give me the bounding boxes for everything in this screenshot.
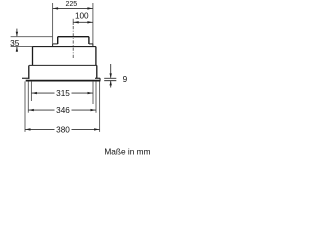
dim 315: right arrowhead	[88, 92, 93, 94]
body top line	[33, 46, 96, 48]
dim 346: left extension	[27, 81, 29, 112]
dim 380: dimension line left part	[25, 128, 55, 130]
dim 346: dimension line right part	[72, 109, 97, 111]
dim 35: upper arrow line	[16, 29, 18, 37]
dim 315: right extension	[92, 82, 94, 104]
hood duct hat: left edge	[57, 37, 59, 44]
dim 380: dimension line right part	[72, 128, 100, 130]
dim 225: extension line right (shared with dim 100)	[92, 3, 94, 44]
dim 315: dimension line right part	[72, 92, 94, 94]
dim 225: left arrowhead	[53, 7, 58, 9]
dim 9: upper arrowhead (down)	[110, 73, 112, 78]
dim 100: right arrowhead	[87, 21, 92, 23]
dim 346: dimension line left part	[28, 109, 54, 111]
dim 380: right extension	[99, 81, 101, 131]
dim 315: left arrowhead	[32, 92, 37, 94]
dim 315: left extension	[30, 82, 32, 101]
flange bottom line: right segment	[95, 77, 100, 79]
flange bottom line: left segment	[22, 77, 30, 79]
body right edge	[95, 47, 97, 66]
dim 380: left arrowhead	[25, 128, 30, 130]
svg-text:100: 100	[75, 12, 89, 21]
svg-text:346: 346	[56, 106, 70, 115]
platform right edge	[92, 44, 94, 47]
dim 35: upper tick / shelf line	[11, 36, 53, 38]
svg-text:380: 380	[56, 126, 70, 135]
dim 100: left tick	[72, 19, 74, 25]
hood duct hat: top	[58, 36, 89, 38]
lip left edge	[28, 65, 30, 78]
dim 9: lower arrow line	[110, 81, 112, 88]
dim 346: left arrowhead	[29, 109, 34, 111]
dim 346: right extension	[95, 81, 97, 112]
dim 380: right arrowhead	[94, 128, 99, 130]
platform top: right segment	[89, 43, 93, 45]
dim 225: right arrowhead	[87, 7, 92, 9]
svg-text:Maße in mm: Maße in mm	[104, 146, 150, 156]
dim 100: left arrowhead	[74, 21, 79, 23]
hood duct hat: right edge	[88, 37, 90, 44]
visor bottom line	[26, 80, 101, 82]
dim 380: left extension	[24, 81, 26, 131]
svg-text:315: 315	[56, 89, 70, 98]
dim 225: dimension line	[53, 7, 93, 9]
body left edge	[32, 47, 34, 66]
dim 346: right arrowhead	[91, 109, 96, 111]
svg-text:35: 35	[10, 38, 20, 48]
dim 35: lower arrowhead (pointing up)	[16, 47, 18, 52]
svg-text:9: 9	[123, 75, 128, 84]
dim 315: dimension line left part	[31, 92, 54, 94]
flange right end vertical	[99, 78, 101, 80]
platform top (225-wide tier): left segment	[53, 43, 58, 45]
dim 100: dimension line	[73, 21, 93, 23]
dim 9: lower arrowhead (up)	[110, 81, 112, 86]
svg-text:225: 225	[65, 1, 77, 8]
dim 225: extension line left	[52, 3, 54, 44]
platform left edge	[52, 44, 54, 47]
lip right edge	[96, 65, 98, 78]
dim 35: upper arrowhead (pointing down)	[16, 32, 18, 37]
dim 9: upper arrow line	[110, 64, 112, 78]
dim 35: lower arrow line	[16, 47, 18, 52]
dim 35: lower tick (body top extension)	[11, 46, 33, 48]
centerline (dash-dot)	[72, 26, 74, 58]
dim 9: lower tick	[104, 80, 116, 82]
dim 9: upper tick	[104, 77, 116, 79]
step line at body bottom	[29, 64, 97, 66]
